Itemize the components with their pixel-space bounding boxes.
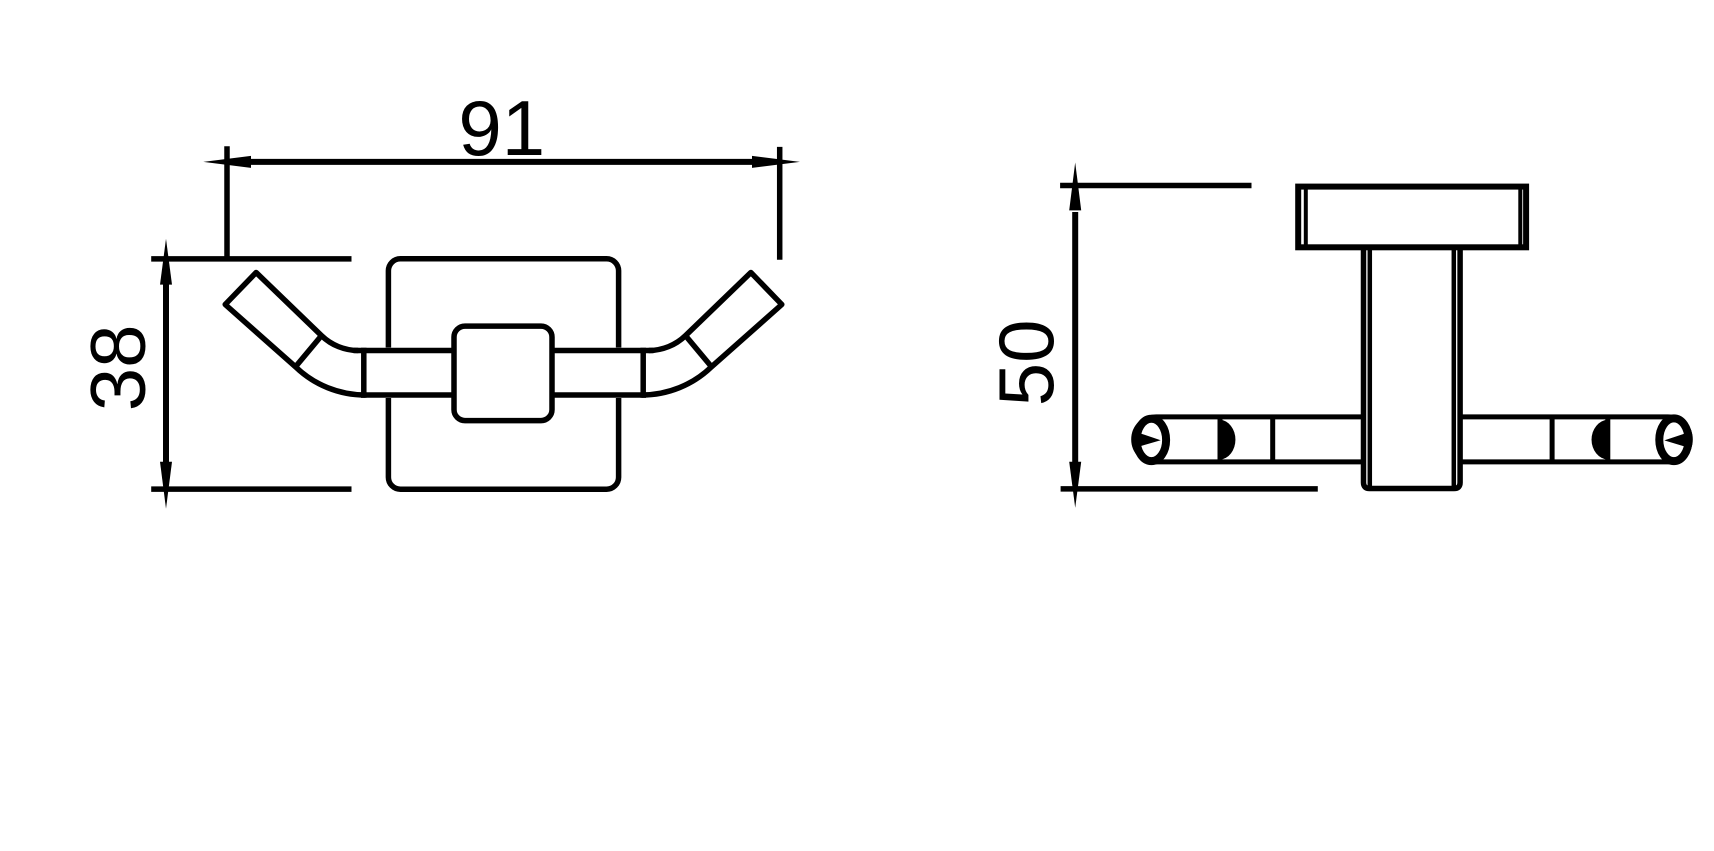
- dimension 50: dimension line: [1072, 212, 1078, 464]
- front view: right hook bend line: [686, 336, 712, 367]
- front view: wall plate (rounded square): [388, 259, 618, 489]
- front view: plate edge gap where bar crosses (right): [614, 348, 622, 399]
- dimension 91: right arrowhead: [752, 156, 800, 168]
- side view: stem right inner edge: [1452, 250, 1457, 486]
- front view: bar top edge (right segment): [552, 348, 654, 354]
- side view: stem left inner edge: [1368, 250, 1373, 486]
- side view: left hook tip cone wedge: [1135, 432, 1161, 448]
- side view: mounting plate outline: [1298, 187, 1526, 248]
- front view: center boss (rounded square): [454, 326, 552, 421]
- side view: mounting plate left inner edge: [1304, 189, 1308, 244]
- front view: bar top edge (left segment): [354, 348, 455, 354]
- side view: left hook joint line A: [1218, 417, 1223, 462]
- side view: tube right end (stadium cap): [1460, 417, 1690, 462]
- side view: right hook joint line B: [1605, 417, 1610, 462]
- side view: right hook cone silhouette (half disc): [1592, 420, 1608, 460]
- dimension 38: top arrowhead: [160, 239, 172, 285]
- dimension 38: bottom arrowhead: [160, 462, 172, 509]
- dimension 50: bottom extension line: [1061, 486, 1318, 492]
- svg-text:91: 91: [458, 84, 545, 172]
- side view: right hook tip face (ellipse): [1659, 418, 1688, 461]
- front view: right arm-bar junction line: [640, 348, 646, 398]
- dimension 50: top arrowhead: [1069, 163, 1081, 211]
- front view: left hook bend line: [296, 336, 322, 367]
- front view: right hook arm outline (mirror): [642, 273, 782, 396]
- svg-text:38: 38: [74, 325, 162, 412]
- dimension 50: bottom arrowhead: [1069, 462, 1081, 508]
- dimension 38: dimension line: [163, 282, 169, 464]
- side view: left hook joint line B: [1270, 417, 1275, 462]
- dimension 91: right extension line: [777, 147, 783, 260]
- dimension 50: top extension line: [1060, 183, 1251, 189]
- front view: bar bottom edge (right segment): [552, 392, 646, 398]
- dimension 38: bottom extension line: [151, 486, 351, 492]
- dimension 91: dimension line: [249, 159, 754, 165]
- front view: left arm-bar junction line: [361, 348, 367, 398]
- front view: plate edge gap where bar crosses (left): [384, 348, 392, 399]
- side view: left hook cone silhouette (half disc): [1220, 420, 1235, 460]
- side view: left hook tip face (ellipse): [1137, 419, 1166, 461]
- svg-text:50: 50: [982, 320, 1070, 407]
- dimension 38: top extension line: [151, 256, 351, 262]
- side view: right hook joint line A: [1550, 417, 1555, 462]
- dimension 91: left arrowhead: [203, 156, 251, 168]
- front view: left hook arm outline: [225, 273, 365, 396]
- side view: right hook tip cone wedge: [1664, 432, 1689, 448]
- side view: mounting plate right inner edge: [1518, 189, 1522, 244]
- side view: stem outline: [1364, 247, 1461, 488]
- dimension 91: left extension line: [224, 146, 230, 258]
- front view: bar bottom edge (left segment): [361, 392, 454, 398]
- side view: tube left end (stadium cap): [1134, 417, 1364, 462]
